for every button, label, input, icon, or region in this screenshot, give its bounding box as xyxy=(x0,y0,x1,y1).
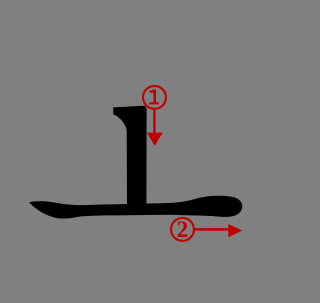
stroke 1: vertical stroke (shu) of character xyxy=(113,106,146,210)
stroke order marker 1: circled number xyxy=(143,86,166,109)
stroke 2: horizontal stroke (heng) of character xyxy=(29,196,242,219)
svg-text:2: 2 xyxy=(177,217,189,243)
digit 1 xyxy=(149,90,159,105)
arrow 2: rightward direction arrow xyxy=(194,228,229,231)
stroke order marker 2: circled number xyxy=(171,218,194,241)
arrow 1: downward direction arrow xyxy=(153,109,155,133)
